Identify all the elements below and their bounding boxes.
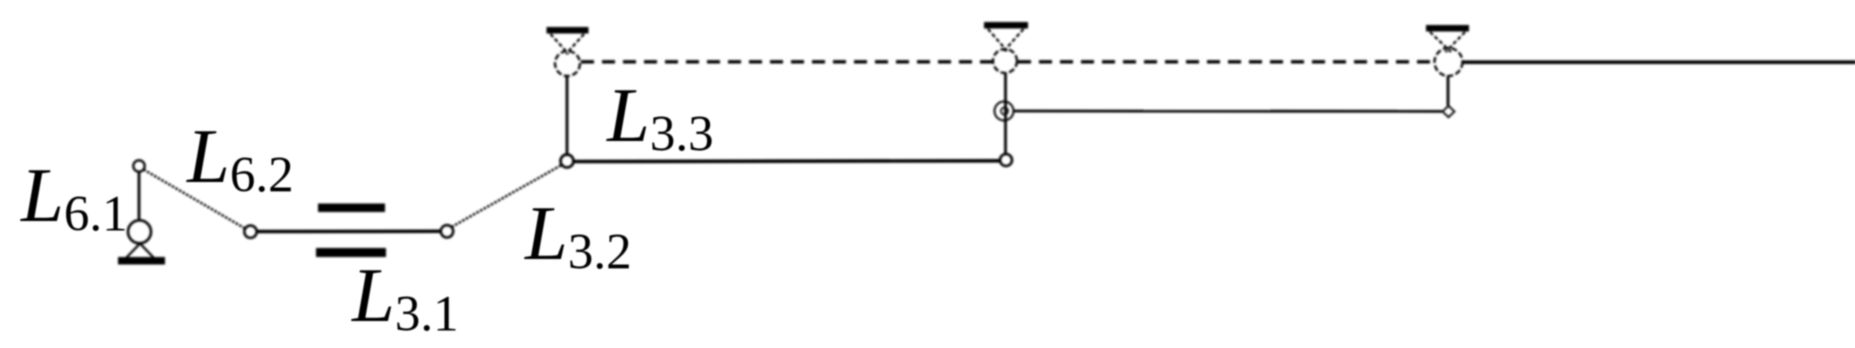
svg-text:L6.1: L6.1: [20, 152, 128, 243]
joint node at lever 3 corner: [561, 155, 574, 168]
node diamond at right rod end: [1443, 106, 1455, 117]
ground support left: bar: [118, 257, 165, 265]
slider guide top bar: [318, 204, 385, 213]
rod L6.2: [144, 170, 247, 230]
joint circle right of L3.1: [441, 225, 453, 237]
support C bar: [984, 22, 1028, 29]
lever vertical through support C: [1004, 73, 1007, 154]
joint circle top of L6.1: [133, 160, 144, 171]
rod horizontal at y=111: [1014, 110, 1443, 113]
svg-text:L6.2: L6.2: [186, 113, 294, 204]
support D triangle: [1430, 32, 1465, 52]
support B pivot circle: [555, 51, 580, 76]
solid line to right edge: [1462, 60, 1855, 64]
svg-text:L3.1: L3.1: [351, 252, 459, 343]
lever arm vertical to support B: [566, 77, 569, 155]
support B triangle: [551, 34, 585, 54]
support D bar: [1426, 25, 1469, 32]
pin joint double circle: [995, 102, 1014, 121]
slider guide bottom bar: [316, 248, 386, 257]
support D pivot circle: [1435, 48, 1463, 76]
joint circle left of L3.1: [244, 226, 256, 238]
dashed line between B and C: [581, 60, 992, 63]
dashed line between C and D: [1018, 60, 1434, 63]
link L6.1 (vertical lever): [138, 172, 141, 219]
support C triangle: [988, 29, 1024, 51]
rod L3.1: [257, 230, 442, 234]
rod L3.3 horizontal: [574, 159, 1001, 163]
svg-text:L3.2: L3.2: [524, 190, 632, 281]
support C pivot circle: [993, 49, 1017, 73]
joint node bottom of support C lever: [1000, 154, 1012, 166]
vertical from node to support D: [1447, 76, 1450, 106]
ground support left: triangle: [127, 244, 154, 258]
support B bar: [547, 27, 589, 34]
ground support left: pivot circle: [128, 220, 151, 243]
svg-text:L3.3: L3.3: [606, 72, 714, 163]
rod L3.2: [452, 165, 563, 228]
